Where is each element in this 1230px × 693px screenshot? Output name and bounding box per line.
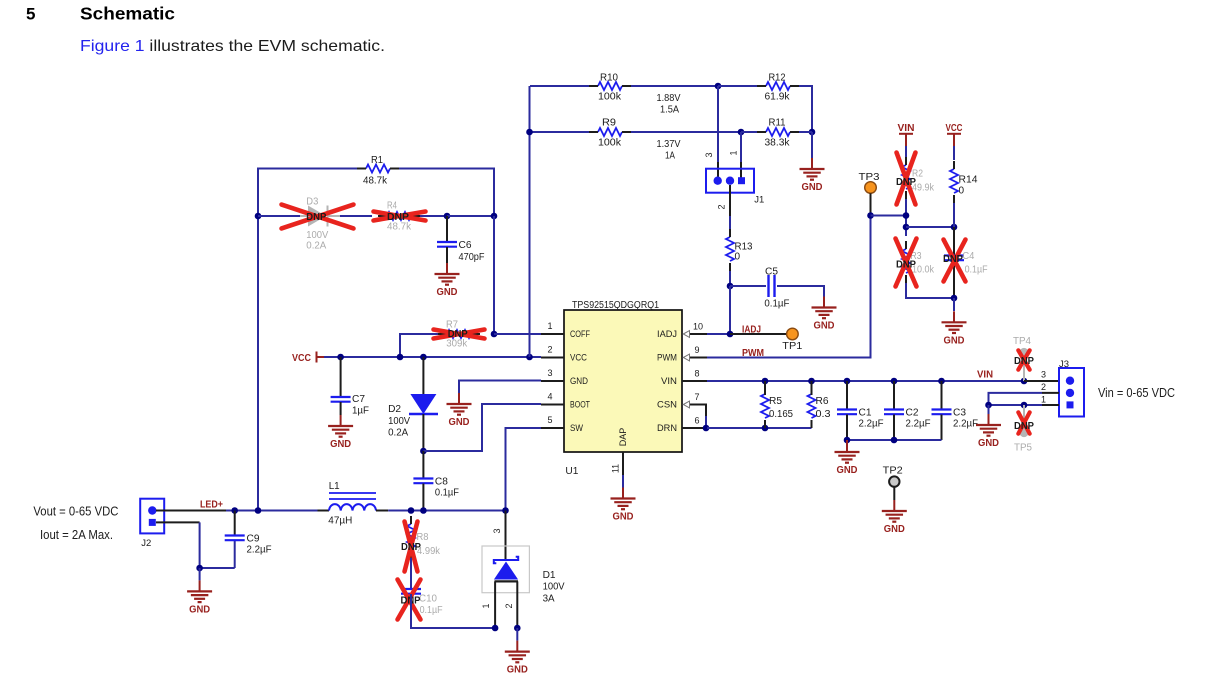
capacitor C8 top lead: [422, 451, 424, 478]
svg-text:R4: R4: [387, 201, 397, 212]
svg-text:3: 3: [547, 368, 552, 378]
node junction R2 bottom: [903, 212, 910, 219]
op-amp U1 TPS92515 body: [564, 310, 682, 452]
svg-text:IADJ: IADJ: [742, 325, 761, 336]
pin 5 SW of U1: [541, 427, 564, 429]
resistor R4 (DNP): [387, 212, 411, 220]
svg-text:Figure 1 illustrates the EVM s: Figure 1 illustrates the EVM schematic.: [80, 38, 385, 55]
wire C8 bottom lead: [422, 484, 424, 511]
svg-text:11: 11: [611, 464, 621, 473]
svg-text:Schematic: Schematic: [80, 4, 175, 24]
wire BOOT elbow: [423, 404, 541, 451]
ground C5 GND: [823, 297, 825, 308]
diode D3 (DNP, grey): [300, 215, 308, 217]
svg-text:C4: C4: [962, 251, 974, 262]
pin 4 BOOT of U1: [541, 404, 564, 406]
capacitor C4 (DNP): [944, 254, 964, 256]
ground J2 GND: [199, 580, 201, 591]
svg-text:C7: C7: [352, 394, 365, 405]
wire VIN row from pin8 to J3: [707, 380, 1059, 382]
wire J1 pin1 from divider: [740, 132, 742, 162]
wire J1 pin2 to R13: [729, 185, 731, 216]
svg-text:VCC: VCC: [946, 123, 963, 134]
wire C5 left lead: [730, 285, 766, 287]
svg-text:1: 1: [729, 150, 739, 155]
capacitor C4 (DNP) leads: [953, 227, 955, 256]
svg-text:DNP: DNP: [1014, 355, 1034, 367]
svg-text:0.2A: 0.2A: [388, 428, 408, 439]
svg-text:1µF: 1µF: [352, 406, 369, 417]
svg-text:VCC: VCC: [292, 353, 311, 364]
svg-text:1: 1: [481, 603, 491, 608]
wire IADJ junction to TP1: [730, 333, 787, 335]
wire C7 to GND: [340, 402, 342, 415]
wire junction to R11: [741, 131, 757, 133]
svg-text:0.1µF: 0.1µF: [764, 299, 789, 310]
diode D2 top lead: [422, 357, 424, 394]
wire VCC port to R14: [953, 146, 955, 160]
svg-text:C3: C3: [953, 408, 966, 419]
svg-text:10: 10: [693, 322, 703, 332]
svg-text:48.7k: 48.7k: [363, 176, 388, 187]
svg-text:1.37V: 1.37V: [657, 138, 681, 150]
pin 3 GND of U1: [541, 380, 564, 382]
wire J3 pin2 elbow: [1042, 392, 1059, 394]
svg-text:3: 3: [704, 152, 714, 157]
svg-text:1: 1: [1041, 395, 1046, 405]
svg-text:2: 2: [1041, 382, 1046, 392]
svg-text:DRN: DRN: [657, 423, 677, 433]
resistor R10: [598, 82, 622, 90]
wire rail x530 from R10 to VCC: [529, 86, 531, 357]
ground U1 pin3 GND: [458, 393, 460, 404]
svg-text:GND: GND: [330, 439, 351, 450]
svg-text:Vout = 0-65 VDC: Vout = 0-65 VDC: [33, 505, 118, 519]
node junction pin1-gnd: [985, 402, 992, 409]
svg-text:C5: C5: [765, 267, 778, 278]
svg-text:100k: 100k: [598, 138, 622, 149]
svg-text:DNP: DNP: [401, 541, 421, 553]
capacitor C5: [767, 275, 769, 297]
node junction VCC-C7: [337, 354, 344, 361]
capacitor C6: [437, 241, 457, 243]
wire R4 to C6 junction: [420, 215, 447, 217]
svg-text:100k: 100k: [598, 92, 622, 103]
capacitor C1: [837, 408, 857, 410]
wire C1 bottom lead: [846, 415, 848, 441]
svg-text:VIN: VIN: [977, 370, 993, 381]
wire right rail to GND stub: [811, 132, 813, 158]
DNP cross over TP4: [1018, 350, 1029, 369]
resistor R5: [761, 394, 769, 418]
svg-text:0.3: 0.3: [816, 409, 831, 420]
wire C5 to GND: [777, 286, 824, 297]
node junction R5: [762, 378, 769, 385]
wire J3 pin3 segment: [1024, 380, 1059, 382]
svg-text:0.1µF: 0.1µF: [435, 488, 459, 499]
capacitor C9 leads: [234, 511, 236, 536]
wire gnd stub: [199, 568, 201, 580]
svg-text:0.1µF: 0.1µF: [420, 605, 443, 616]
svg-text:R6: R6: [816, 396, 829, 407]
wire DAP to GND: [622, 475, 624, 488]
node junction R7-COFF: [491, 331, 498, 338]
wire R9 row: [530, 131, 590, 133]
DNP cross over R7: [434, 330, 485, 339]
diode D1 outline box: [482, 546, 529, 593]
wire D3 to R4: [340, 215, 372, 217]
svg-text:R11: R11: [769, 118, 786, 129]
ground J3 GND: [988, 414, 990, 425]
svg-text:VIN: VIN: [898, 123, 915, 134]
node junction C2 gnd: [891, 437, 898, 444]
svg-text:5: 5: [547, 415, 552, 425]
svg-text:IADJ: IADJ: [657, 329, 677, 339]
node junction C3: [938, 378, 945, 385]
svg-text:0.165: 0.165: [769, 409, 793, 420]
wire R13 to IADJ junction: [729, 271, 731, 286]
node junction C1 gnd: [844, 437, 851, 444]
svg-text:GND: GND: [837, 465, 858, 476]
wire COFF pin wire: [494, 333, 541, 335]
resistor R1: [366, 165, 390, 173]
resistor R13: [726, 237, 734, 261]
pin 1 COFF of U1: [541, 333, 564, 335]
svg-text:GND: GND: [507, 665, 528, 676]
svg-text:GND: GND: [189, 604, 210, 615]
svg-text:R5: R5: [769, 396, 782, 407]
ground right rail GND: [811, 158, 813, 169]
svg-text:1: 1: [547, 321, 552, 331]
node junction TP5 tap: [1021, 402, 1028, 409]
node junction J2 gnd: [196, 565, 203, 572]
svg-text:DAP: DAP: [618, 428, 628, 447]
svg-text:1.88V: 1.88V: [657, 92, 681, 104]
svg-text:48.7k: 48.7k: [387, 222, 412, 233]
diode D1 anode bar and legs: [495, 580, 519, 582]
connector J1: [706, 169, 754, 193]
wire junction to R12: [718, 85, 757, 87]
resistor R11: [766, 128, 790, 136]
test point TP1: [787, 328, 799, 340]
DNP cross over TP5: [1018, 412, 1029, 433]
node junction R14-C4: [951, 224, 958, 231]
DNP cross over R8: [405, 522, 418, 572]
svg-text:R9: R9: [602, 118, 616, 129]
svg-text:D3: D3: [306, 197, 318, 208]
capacitor C3: [932, 408, 952, 410]
svg-text:2: 2: [547, 345, 552, 355]
svg-text:1.5A: 1.5A: [660, 104, 679, 116]
wire VCC row: [324, 356, 541, 358]
node junction TP4: [1021, 378, 1028, 385]
svg-text:TPS92515QDGQRQ1: TPS92515QDGQRQ1: [572, 300, 659, 311]
svg-text:1A: 1A: [665, 150, 675, 162]
diode D1 (schottky): [494, 557, 518, 563]
resistor R6: [808, 394, 816, 418]
svg-text:R1: R1: [371, 155, 383, 166]
DNP cross over C4: [944, 240, 966, 282]
svg-text:Iout = 2A Max.: Iout = 2A Max.: [40, 528, 113, 542]
pin 9 PWM of U1: [689, 357, 707, 359]
node junction D2-C8-BOOT: [420, 448, 427, 455]
capacitor C1 top lead: [846, 381, 848, 409]
svg-text:GND: GND: [944, 335, 965, 346]
wire C2 bottom lead: [893, 415, 895, 441]
capacitor C2 top lead: [893, 381, 895, 409]
svg-text:C6: C6: [459, 240, 472, 251]
node junction IADJ: [727, 331, 734, 338]
node junction D1 leg2: [514, 625, 521, 632]
node junction R8 tap: [408, 507, 415, 514]
wire D3 row left segment: [258, 215, 300, 217]
svg-text:TP1: TP1: [782, 341, 802, 352]
node junction R10-R12-J1pin3: [715, 83, 722, 90]
wire R11 to right rail: [799, 131, 812, 133]
svg-text:2.2µF: 2.2µF: [247, 545, 272, 556]
node junction TP3-PWM: [867, 212, 874, 219]
ground D1 GND: [516, 641, 518, 652]
svg-text:3: 3: [492, 528, 502, 533]
wire SW elbow: [506, 428, 542, 510]
svg-text:C10: C10: [419, 594, 437, 605]
svg-text:COFF: COFF: [570, 329, 590, 339]
svg-text:R10: R10: [600, 73, 618, 84]
wire J3 pin1 row: [989, 404, 1043, 406]
pin 8 VIN of U1: [682, 380, 707, 382]
wire R7 left lead down to VCC net: [400, 334, 438, 357]
wire cross link to R14 rail: [906, 226, 954, 228]
node junction C9 tap: [231, 507, 238, 514]
node junction rail530-R9: [526, 129, 533, 136]
ground C1 GND: [846, 440, 848, 452]
wire R2 to junctions: [905, 199, 907, 236]
wire junction down to IADJ net: [729, 286, 731, 334]
node junction CSN-DRN: [703, 425, 710, 432]
pin 6 DRN of U1: [682, 427, 707, 429]
wire VIN port to R2: [905, 146, 907, 157]
wire D2 to BOOT junction: [422, 414, 424, 451]
svg-text:DNP: DNP: [1014, 420, 1034, 432]
svg-text:DNP: DNP: [943, 253, 963, 265]
svg-text:BOOT: BOOT: [570, 400, 590, 410]
wire left tall rail LED+ to R1: [258, 169, 357, 511]
svg-text:0.2A: 0.2A: [306, 241, 326, 252]
node junction right short rail: [491, 213, 498, 220]
svg-text:SW: SW: [570, 423, 583, 433]
node junction left rail tap: [255, 507, 262, 514]
svg-text:TP4: TP4: [1013, 336, 1031, 347]
svg-text:GND: GND: [437, 287, 458, 298]
svg-text:DNP: DNP: [896, 176, 916, 188]
svg-text:DNP: DNP: [387, 211, 409, 223]
pin 10 IADJ of U1: [689, 333, 707, 335]
capacitor C7: [331, 396, 351, 398]
svg-text:Vin = 0-65 VDC: Vin = 0-65 VDC: [1098, 386, 1175, 400]
diode D1 pin3 wire: [505, 511, 507, 562]
svg-text:2: 2: [717, 204, 727, 209]
resistor R12: [766, 82, 790, 90]
connector J3: [1059, 368, 1084, 417]
wire D1 to GND: [516, 628, 518, 641]
ground C7 GND: [340, 415, 342, 426]
test point TP5 (DNP, grey): [1023, 405, 1025, 429]
svg-text:TP3: TP3: [859, 172, 880, 183]
wire R12 to right rail: [799, 86, 812, 132]
svg-text:3A: 3A: [543, 594, 555, 605]
DNP cross over R4: [374, 212, 426, 221]
svg-text:61.9k: 61.9k: [765, 92, 791, 103]
svg-text:3: 3: [1041, 370, 1046, 380]
wire J2 pin2 elbow: [156, 521, 200, 523]
wire GND stub of pin3: [459, 381, 541, 394]
resistor R9: [598, 128, 622, 136]
svg-text:PWM: PWM: [742, 348, 764, 359]
capacitor C3 top lead: [941, 381, 943, 409]
wire J1 pin3 from divider: [717, 86, 719, 162]
svg-text:C8: C8: [435, 477, 448, 488]
svg-text:100V: 100V: [306, 230, 328, 241]
node junction R13-C5: [727, 283, 734, 290]
svg-text:D1: D1: [543, 570, 556, 581]
wire capacitor ground row: [847, 439, 942, 441]
ground bias branch GND: [953, 311, 955, 322]
wire TP3 stub: [870, 193, 872, 215]
DNP cross over R3: [896, 239, 917, 287]
wire R5/R6 tops: [764, 381, 766, 395]
node junction R9-R11-J1pin1: [738, 129, 745, 136]
wire IADJ pin to junction: [707, 333, 730, 335]
wire L1 to SW node: [388, 510, 505, 512]
wire DRN row: [707, 427, 812, 429]
node junction right rail R11: [809, 129, 816, 136]
svg-text:4: 4: [547, 392, 552, 402]
wire R3 bottom to GND row: [906, 283, 954, 298]
DNP cross over C10: [398, 580, 421, 620]
svg-text:U1: U1: [565, 466, 578, 477]
node junction C6 tap: [444, 213, 451, 220]
svg-text:CSN: CSN: [657, 400, 677, 410]
svg-text:0: 0: [959, 186, 965, 197]
svg-text:DNP: DNP: [448, 328, 468, 340]
svg-text:DNP: DNP: [306, 211, 326, 223]
svg-text:0.1µF: 0.1µF: [965, 265, 988, 276]
svg-text:2: 2: [504, 603, 514, 608]
capacitor C7 lead: [340, 357, 342, 396]
svg-text:9: 9: [695, 345, 700, 355]
wire R10 row: [530, 85, 589, 87]
svg-text:309k: 309k: [446, 339, 468, 350]
diode D2: [410, 394, 436, 414]
svg-text:GND: GND: [802, 182, 823, 193]
svg-text:100V: 100V: [543, 582, 565, 593]
svg-text:GND: GND: [978, 438, 999, 449]
svg-text:470pF: 470pF: [459, 252, 485, 263]
svg-text:VIN: VIN: [661, 376, 677, 386]
svg-text:GND: GND: [814, 321, 835, 332]
test point TP3: [865, 182, 877, 194]
svg-text:TP5: TP5: [1014, 443, 1032, 454]
node junction D1 leg1: [492, 625, 499, 632]
ground C6 GND: [446, 263, 448, 274]
test point TP4 (DNP, grey): [1023, 356, 1025, 381]
wire gnd stub J3: [988, 405, 990, 414]
node junction VCC-D2: [420, 354, 427, 361]
svg-text:GND: GND: [570, 376, 588, 386]
node junction SW-D1: [502, 507, 509, 514]
ground TP2 GND: [893, 500, 895, 511]
svg-text:LED+: LED+: [200, 500, 223, 511]
resistor R14: [950, 169, 958, 193]
resistor R7 (DNP) horizontal: [447, 330, 471, 338]
svg-text:R14: R14: [959, 175, 978, 186]
svg-text:2.2µF: 2.2µF: [906, 419, 931, 430]
capacitor C10 (DNP): [401, 588, 421, 590]
svg-text:D2: D2: [388, 404, 401, 415]
svg-text:GND: GND: [449, 417, 470, 428]
svg-text:47µH: 47µH: [328, 516, 352, 527]
DNP cross over R2: [897, 153, 916, 205]
node junction C2: [891, 378, 898, 385]
svg-text:100V: 100V: [388, 416, 410, 427]
node junction left rail D3 row: [255, 213, 262, 220]
wire TP3 junction to R2 rail: [871, 215, 907, 217]
svg-text:8: 8: [695, 369, 700, 379]
svg-text:2.2µF: 2.2µF: [953, 419, 978, 430]
svg-text:0: 0: [735, 252, 741, 263]
wire right short rail to COFF: [493, 216, 495, 334]
svg-text:VCC: VCC: [570, 353, 587, 363]
connector J2: [140, 499, 164, 534]
wire PWM net: [707, 216, 871, 358]
pin 2 VCC of U1: [541, 357, 564, 359]
wire C6 junction to right short rail: [447, 215, 494, 217]
capacitor C2: [884, 408, 904, 410]
pin 7 CSN of U1: [689, 404, 707, 406]
svg-text:C2: C2: [906, 408, 919, 419]
resistor R2 (DNP): [902, 165, 910, 189]
svg-text:38.3k: 38.3k: [765, 138, 791, 149]
svg-text:GND: GND: [613, 512, 634, 523]
wire LED+ to junctions: [226, 510, 329, 512]
node junction C4 bottom: [951, 295, 958, 302]
capacitor C8: [413, 477, 433, 479]
wire C6 top lead: [446, 216, 448, 241]
node junction C1: [844, 378, 851, 385]
DNP cross over D3: [282, 205, 354, 229]
node junction R6: [808, 378, 815, 385]
node junction R3 top tap: [903, 224, 910, 231]
wire LED+ from J2: [156, 510, 226, 512]
wire CSN elbow: [706, 405, 707, 417]
node junction C8 tap: [420, 507, 427, 514]
wire bias gnd stub: [953, 298, 955, 311]
svg-text:J1: J1: [754, 195, 764, 206]
svg-text:PWM: PWM: [657, 353, 677, 363]
svg-text:J2: J2: [141, 538, 151, 549]
ground DAP GND: [622, 488, 624, 499]
svg-text:L1: L1: [329, 481, 340, 492]
svg-text:TP2: TP2: [883, 466, 903, 477]
svg-text:J3: J3: [1059, 359, 1069, 370]
wire C10 bottom to D1 anode row: [411, 594, 494, 628]
svg-text:DNP: DNP: [896, 259, 916, 271]
svg-text:C9: C9: [247, 534, 260, 545]
resistor R8 (DNP) vertical: [407, 524, 415, 548]
svg-text:2.2µF: 2.2µF: [859, 419, 884, 430]
svg-text:R12: R12: [769, 73, 786, 84]
wire R14 to junction: [953, 203, 955, 227]
